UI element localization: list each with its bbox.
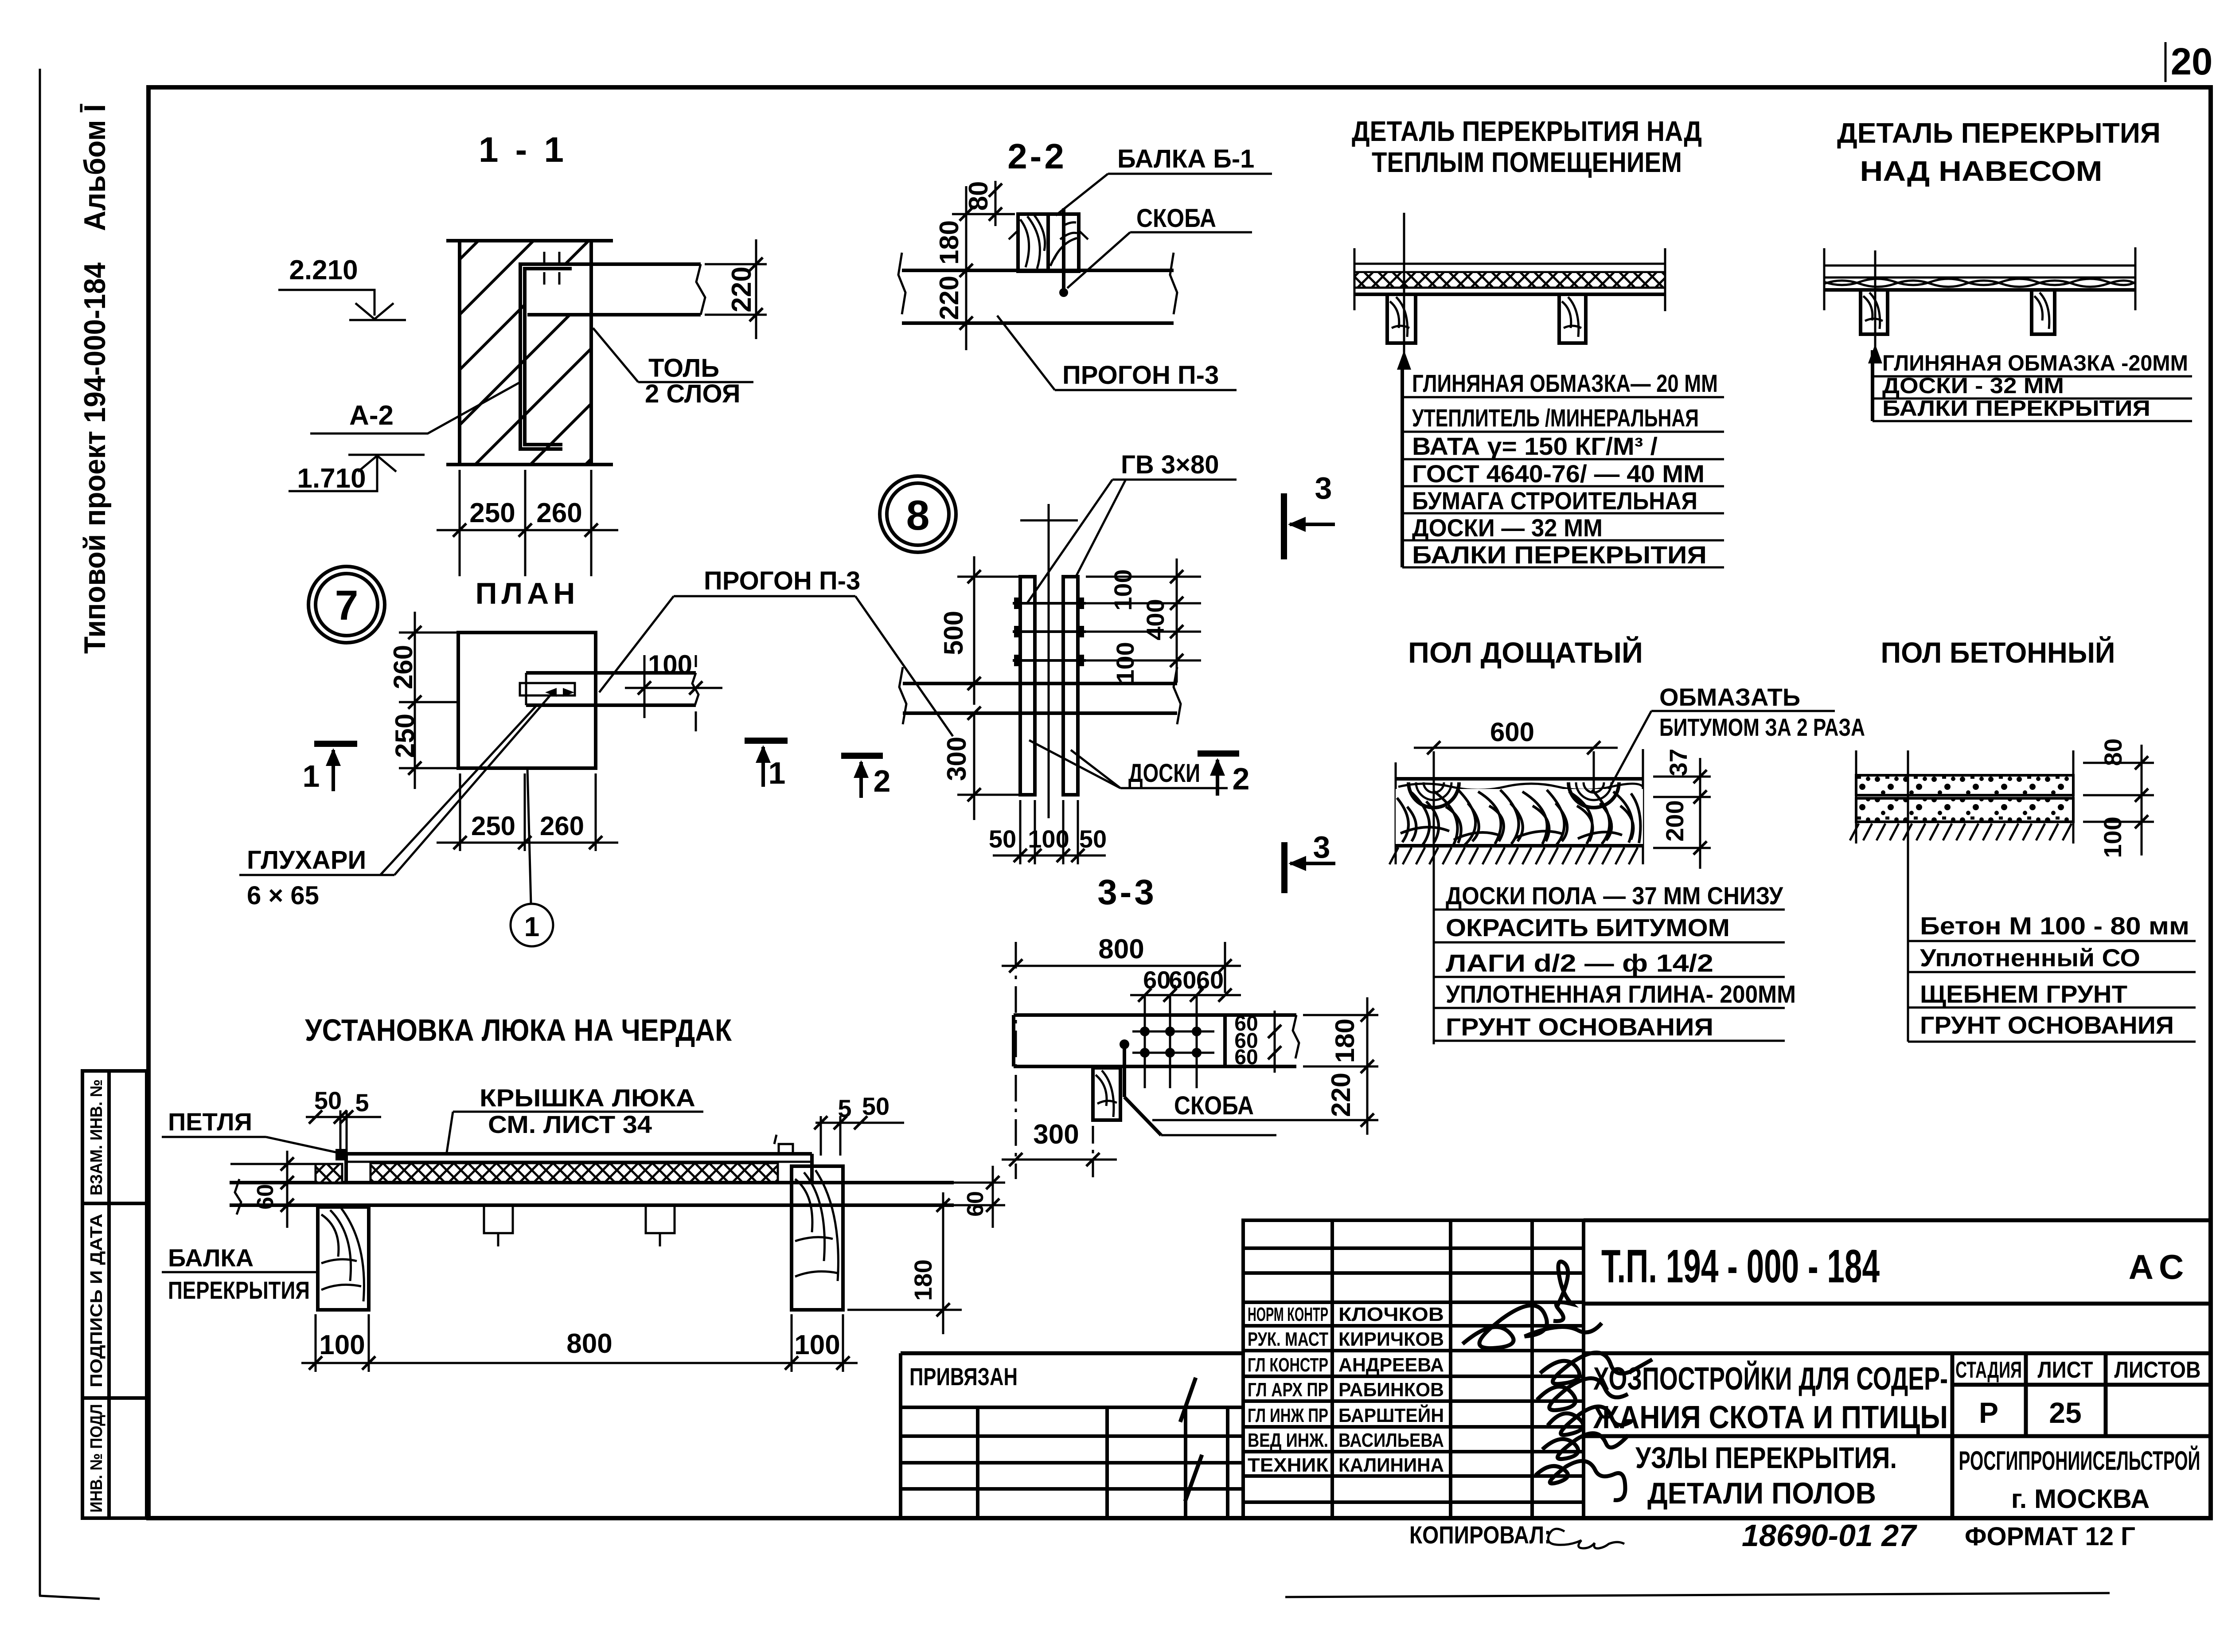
svg-text:3: 3 bbox=[1313, 830, 1330, 864]
svg-text:НАД НАВЕСОМ: НАД НАВЕСОМ bbox=[1860, 155, 2103, 187]
svg-text:ГОСТ 4640-76/ — 40 ММ: ГОСТ 4640-76/ — 40 ММ bbox=[1412, 460, 1705, 488]
svg-text:1: 1 bbox=[303, 759, 320, 793]
svg-text:ДОСКИ ПОЛА — 37 ММ СНИЗУ: ДОСКИ ПОЛА — 37 ММ СНИЗУ bbox=[1446, 882, 1783, 910]
svg-text:250: 250 bbox=[469, 498, 515, 528]
svg-text:5: 5 bbox=[355, 1089, 369, 1117]
svg-text:Т.П. 194 - 000 - 184: Т.П. 194 - 000 - 184 bbox=[1601, 1240, 1880, 1293]
svg-text:220: 220 bbox=[726, 266, 757, 312]
svg-text:180: 180 bbox=[909, 1259, 937, 1301]
svg-text:3-3: 3-3 bbox=[1097, 872, 1157, 912]
svg-text:80: 80 bbox=[964, 181, 993, 211]
svg-text:ПОЛ ДОЩАТЫЙ: ПОЛ ДОЩАТЫЙ bbox=[1408, 636, 1643, 669]
svg-text:ГВ 3×80: ГВ 3×80 bbox=[1121, 450, 1219, 479]
svg-text:250: 250 bbox=[471, 811, 515, 841]
svg-text:100: 100 bbox=[1028, 825, 1069, 853]
svg-text:РОСГИПРОНИИСЕЛЬСТРОЙ: РОСГИПРОНИИСЕЛЬСТРОЙ bbox=[1959, 1446, 2200, 1476]
svg-text:100: 100 bbox=[1109, 569, 1137, 610]
svg-text:ПОДПИСЬ И ДАТА: ПОДПИСЬ И ДАТА bbox=[87, 1214, 106, 1387]
svg-text:2-2: 2-2 bbox=[1007, 137, 1067, 176]
svg-text:ГЛ КОНСТР: ГЛ КОНСТР bbox=[1248, 1354, 1328, 1376]
svg-text:300: 300 bbox=[942, 737, 971, 781]
svg-text:1: 1 bbox=[524, 912, 539, 942]
svg-text:ВЕД ИНЖ.: ВЕД ИНЖ. bbox=[1248, 1429, 1328, 1451]
svg-text:200: 200 bbox=[1661, 800, 1689, 841]
svg-text:2 СЛОЯ: 2 СЛОЯ bbox=[645, 379, 741, 408]
svg-text:ДЕТАЛЬ ПЕРЕКРЫТИЯ НАД: ДЕТАЛЬ ПЕРЕКРЫТИЯ НАД bbox=[1352, 115, 1702, 147]
svg-text:300: 300 bbox=[1033, 1119, 1079, 1150]
svg-text:37: 37 bbox=[1664, 749, 1692, 776]
svg-text:ПОЛ БЕТОННЫЙ: ПОЛ БЕТОННЫЙ bbox=[1881, 636, 2115, 669]
svg-text:БАЛКА: БАЛКА bbox=[168, 1244, 254, 1272]
svg-text:2.210: 2.210 bbox=[289, 255, 358, 285]
svg-text:ЩЕБНЕМ ГРУНТ: ЩЕБНЕМ ГРУНТ bbox=[1920, 980, 2127, 1008]
svg-text:1 - 1: 1 - 1 bbox=[479, 130, 567, 169]
svg-text:2: 2 bbox=[874, 764, 891, 798]
svg-text:ВАСИЛЬЕВА: ВАСИЛЬЕВА bbox=[1338, 1429, 1444, 1451]
svg-text:800: 800 bbox=[566, 1328, 612, 1359]
svg-text:ПРОГОН П-3: ПРОГОН П-3 bbox=[704, 566, 860, 595]
svg-text:ВАТА γ= 150 КГ/М³ /: ВАТА γ= 150 КГ/М³ / bbox=[1412, 432, 1658, 460]
svg-text:100: 100 bbox=[319, 1330, 365, 1360]
svg-text:г. МОСКВА: г. МОСКВА bbox=[2011, 1484, 2150, 1514]
svg-text:1: 1 bbox=[769, 756, 786, 790]
svg-text:ОБМАЗАТЬ: ОБМАЗАТЬ bbox=[1659, 683, 1800, 711]
svg-text:ГЛ АРХ ПР: ГЛ АРХ ПР bbox=[1248, 1379, 1328, 1401]
svg-text:25: 25 bbox=[2049, 1396, 2081, 1429]
svg-text:БИТУМОМ ЗА 2 РАЗА: БИТУМОМ ЗА 2 РАЗА bbox=[1659, 713, 1865, 741]
svg-text:ДЕТАЛЬ ПЕРЕКРЫТИЯ: ДЕТАЛЬ ПЕРЕКРЫТИЯ bbox=[1837, 117, 2161, 149]
svg-text:А-2: А-2 bbox=[349, 400, 394, 431]
svg-text:РУК. МАСТ: РУК. МАСТ bbox=[1248, 1328, 1328, 1350]
svg-text:СМ. ЛИСТ 34: СМ. ЛИСТ 34 bbox=[488, 1110, 652, 1138]
svg-text:8: 8 bbox=[906, 492, 930, 539]
svg-text:60: 60 bbox=[1196, 966, 1224, 994]
svg-text:БУМАГА СТРОИТЕЛЬНАЯ: БУМАГА СТРОИТЕЛЬНАЯ bbox=[1412, 487, 1697, 515]
svg-text:260: 260 bbox=[388, 645, 418, 689]
svg-text:ВЗАМ. ИНВ. №: ВЗАМ. ИНВ. № bbox=[87, 1079, 106, 1195]
svg-text:ТЕПЛЫМ ПОМЕЩЕНИЕМ: ТЕПЛЫМ ПОМЕЩЕНИЕМ bbox=[1372, 146, 1682, 178]
svg-text:КАЛИНИНА: КАЛИНИНА bbox=[1338, 1454, 1444, 1476]
svg-text:ДЕТАЛИ ПОЛОВ: ДЕТАЛИ ПОЛОВ bbox=[1647, 1476, 1876, 1510]
svg-text:6 × 65: 6 × 65 bbox=[247, 881, 319, 910]
svg-text:100: 100 bbox=[648, 650, 692, 680]
svg-text:50: 50 bbox=[314, 1086, 342, 1114]
svg-text:АНДРЕЕВА: АНДРЕЕВА bbox=[1338, 1354, 1444, 1376]
svg-text:100: 100 bbox=[1111, 642, 1139, 683]
svg-text:Уплотненный СО: Уплотненный СО bbox=[1920, 944, 2140, 972]
svg-text:Бетон М 100 - 80 мм: Бетон М 100 - 80 мм bbox=[1920, 912, 2189, 940]
svg-text:КИРИЧКОВ: КИРИЧКОВ bbox=[1338, 1328, 1444, 1350]
svg-text:ПРОГОН П-3: ПРОГОН П-3 bbox=[1062, 361, 1219, 390]
svg-text:2: 2 bbox=[1233, 762, 1250, 796]
svg-text:100: 100 bbox=[2099, 816, 2126, 858]
svg-text:УСТАНОВКА ЛЮКА НА ЧЕРДАК: УСТАНОВКА ЛЮКА НА ЧЕРДАК bbox=[305, 1013, 732, 1047]
svg-text:60: 60 bbox=[963, 1191, 988, 1217]
svg-text:АС: АС bbox=[2129, 1247, 2190, 1286]
svg-text:ПЕРЕКРЫТИЯ: ПЕРЕКРЫТИЯ bbox=[168, 1276, 310, 1304]
svg-text:3: 3 bbox=[1315, 471, 1332, 505]
svg-text:БАЛКИ ПЕРЕКРЫТИЯ: БАЛКИ ПЕРЕКРЫТИЯ bbox=[1882, 396, 2150, 421]
svg-text:БАРШТЕЙН: БАРШТЕЙН bbox=[1338, 1404, 1444, 1426]
svg-text:ГЛУХАРИ: ГЛУХАРИ bbox=[247, 846, 366, 875]
svg-text:ЛИСТ: ЛИСТ bbox=[2038, 1357, 2093, 1383]
svg-text:1.710: 1.710 bbox=[297, 463, 366, 494]
svg-text:НОРМ КОНТР: НОРМ КОНТР bbox=[1248, 1304, 1328, 1325]
svg-text:ДОСКИ: ДОСКИ bbox=[1128, 759, 1200, 788]
svg-text:260: 260 bbox=[536, 498, 582, 528]
svg-text:ГЛ ИНЖ ПР: ГЛ ИНЖ ПР bbox=[1248, 1405, 1328, 1426]
svg-text:220: 220 bbox=[934, 276, 964, 320]
svg-text:ПЕТЛЯ: ПЕТЛЯ bbox=[168, 1108, 252, 1136]
svg-text:18690-01 27: 18690-01 27 bbox=[1742, 1518, 1917, 1553]
svg-text:БАЛКА Б-1: БАЛКА Б-1 bbox=[1117, 145, 1254, 173]
svg-text:ЛИСТОВ: ЛИСТОВ bbox=[2115, 1357, 2201, 1383]
svg-text:КОПИРОВАЛ:: КОПИРОВАЛ: bbox=[1409, 1521, 1551, 1549]
svg-text:ГРУНТ ОСНОВАНИЯ: ГРУНТ ОСНОВАНИЯ bbox=[1920, 1011, 2174, 1039]
svg-text:260: 260 bbox=[540, 811, 584, 841]
svg-text:ДОСКИ - 32 ММ: ДОСКИ - 32 ММ bbox=[1882, 373, 2064, 398]
svg-text:100: 100 bbox=[794, 1330, 840, 1360]
svg-text:ГРУНТ ОСНОВАНИЯ: ГРУНТ ОСНОВАНИЯ bbox=[1446, 1013, 1713, 1041]
svg-text:УЗЛЫ ПЕРЕКРЫТИЯ.: УЗЛЫ ПЕРЕКРЫТИЯ. bbox=[1635, 1441, 1897, 1475]
svg-text:ФОРМАТ 12 Г: ФОРМАТ 12 Г bbox=[1965, 1522, 2135, 1551]
svg-text:80: 80 bbox=[2099, 738, 2127, 766]
svg-text:250: 250 bbox=[390, 714, 420, 758]
svg-text:ТЕХНИК: ТЕХНИК bbox=[1248, 1454, 1328, 1476]
svg-text:ДОСКИ — 32 ММ: ДОСКИ — 32 ММ bbox=[1412, 514, 1603, 542]
svg-text:180: 180 bbox=[1330, 1019, 1360, 1063]
svg-text:УТЕПЛИТЕЛЬ /МИНЕРАЛЬНАЯ: УТЕПЛИТЕЛЬ /МИНЕРАЛЬНАЯ bbox=[1412, 404, 1699, 432]
svg-text:60: 60 bbox=[253, 1184, 278, 1210]
svg-text:ТОЛЬ: ТОЛЬ bbox=[648, 354, 719, 383]
svg-text:400: 400 bbox=[1141, 599, 1169, 640]
svg-text:Р: Р bbox=[1979, 1396, 1998, 1429]
svg-text:800: 800 bbox=[1098, 934, 1144, 965]
svg-text:50: 50 bbox=[1079, 825, 1107, 853]
svg-text:600: 600 bbox=[1490, 717, 1534, 747]
svg-text:ПРИВЯЗАН: ПРИВЯЗАН bbox=[909, 1363, 1018, 1390]
svg-text:КРЫШКА ЛЮКА: КРЫШКА ЛЮКА bbox=[480, 1084, 695, 1112]
svg-text:180: 180 bbox=[934, 220, 964, 265]
svg-text:ХОЗПОСТРОЙКИ ДЛЯ СОДЕР-: ХОЗПОСТРОЙКИ ДЛЯ СОДЕР- bbox=[1593, 1360, 1948, 1397]
svg-text:ГЛИНЯНАЯ ОБМАЗКА— 20 ММ: ГЛИНЯНАЯ ОБМАЗКА— 20 ММ bbox=[1412, 369, 1718, 397]
svg-text:Типовой проект 194-000-184: Типовой проект 194-000-184 Альбом Ī bbox=[78, 104, 112, 654]
svg-text:500: 500 bbox=[939, 611, 968, 655]
svg-text:7: 7 bbox=[335, 582, 359, 629]
svg-text:ЖАНИЯ СКОТА И ПТИЦЫ: ЖАНИЯ СКОТА И ПТИЦЫ bbox=[1593, 1400, 1948, 1435]
svg-text:ГЛИНЯНАЯ ОБМАЗКА -20ММ: ГЛИНЯНАЯ ОБМАЗКА -20ММ bbox=[1882, 351, 2188, 375]
svg-text:СКОБА: СКОБА bbox=[1136, 204, 1216, 233]
svg-text:УПЛОТНЕННАЯ ГЛИНА- 200ММ: УПЛОТНЕННАЯ ГЛИНА- 200ММ bbox=[1446, 980, 1796, 1008]
svg-text:БАЛКИ ПЕРЕКРЫТИЯ: БАЛКИ ПЕРЕКРЫТИЯ bbox=[1412, 541, 1707, 569]
svg-text:РАБИНКОВ: РАБИНКОВ bbox=[1338, 1379, 1444, 1401]
svg-text:50: 50 bbox=[989, 825, 1016, 853]
svg-text:СТАДИЯ: СТАДИЯ bbox=[1955, 1357, 2022, 1383]
svg-text:СКОБА: СКОБА bbox=[1174, 1091, 1254, 1120]
svg-text:ОКРАСИТЬ БИТУМОМ: ОКРАСИТЬ БИТУМОМ bbox=[1446, 914, 1730, 941]
svg-text:ИНВ. № ПОДЛ: ИНВ. № ПОДЛ bbox=[87, 1404, 106, 1513]
svg-text:220: 220 bbox=[1326, 1073, 1356, 1117]
svg-text:20: 20 bbox=[2171, 41, 2213, 83]
svg-text:60: 60 bbox=[1234, 1046, 1258, 1069]
svg-text:ПЛАН: ПЛАН bbox=[476, 577, 580, 610]
svg-text:ЛАГИ d/2 — ф 14/2: ЛАГИ d/2 — ф 14/2 bbox=[1446, 949, 1713, 977]
svg-text:КЛОЧКОВ: КЛОЧКОВ bbox=[1338, 1304, 1444, 1325]
